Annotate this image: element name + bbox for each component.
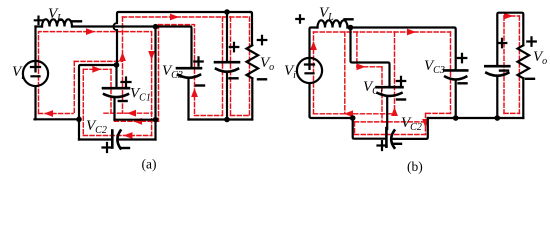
capacitor C1 (b): [377, 86, 403, 89]
red loop: C1 mesh: [357, 32, 395, 122]
wire: bottom-left rail (b): [310, 117, 353, 119]
red loop: C2 corridor and left detour: [74, 61, 152, 135]
output capacitor (b) with top bridge: [497, 13, 523, 66]
wire: step down to C2 (b): [353, 118, 386, 139]
node dot: [76, 117, 82, 123]
node dot: [153, 24, 159, 30]
polarity marks (a): [35, 17, 42, 24]
wire: dot down to C1 bridge: [351, 28, 390, 88]
inductor VL: [36, 25, 43, 27]
node dot: [153, 117, 159, 123]
wire: bottom-left rail: [35, 118, 80, 120]
voltage source Vi (b): [297, 58, 322, 83]
node dot: [495, 115, 501, 121]
red arrows (b): [310, 41, 317, 50]
red loop: top rail corridor: [104, 17, 250, 136]
node dot on top rail: [224, 9, 230, 15]
red loop: right bays (C3 / cap / resistor): [195, 17, 250, 116]
red loop: source-inductor outer path (left): [39, 25, 195, 116]
inductor VL (b): [318, 20, 348, 27]
node dot after coil: [348, 25, 354, 31]
capacitor C3 (b): [444, 69, 467, 72]
voltage source Vi: [23, 61, 48, 86]
red loop: cap-resistor mesh: [504, 16, 519, 113]
wire: source riser: [34, 27, 36, 62]
node dot: [114, 62, 120, 68]
wire hop (no-connect bump): [113, 23, 117, 30]
wire: x155 riser: [154, 27, 156, 140]
wire: bottom-right rail (b): [428, 117, 524, 119]
red loop: C3-C2 mesh: [355, 32, 451, 135]
wire: top run (b): [348, 28, 456, 71]
wire: inductor to C3 corner: [72, 27, 192, 69]
capacitor C3: [177, 67, 201, 70]
node dot: [453, 115, 459, 121]
svg-text:(a): (a): [142, 157, 157, 172]
top rail with hop vertical: [117, 12, 251, 23]
node dot: [224, 117, 230, 123]
polarity marks (b): [296, 15, 303, 22]
wire: source riser (b): [310, 28, 318, 58]
wire: inner horizontal y65: [79, 65, 117, 140]
capacitor C1: [115, 65, 117, 88]
resistor Vo (b): [518, 45, 530, 78]
resistor Vo (a): [251, 12, 253, 45]
capacitor C2: [79, 138, 111, 140]
capacitor C2 (b): [385, 128, 388, 147]
red arrows (a): [86, 28, 95, 35]
wire: C1 bottom to x155: [115, 119, 156, 121]
node dot: [350, 115, 356, 121]
wire: bottom-right rail: [189, 118, 253, 120]
svg-text:(b): (b): [407, 159, 423, 174]
output capacitor (a): [226, 12, 228, 62]
red loop: source-inductor mesh: [314, 32, 451, 114]
